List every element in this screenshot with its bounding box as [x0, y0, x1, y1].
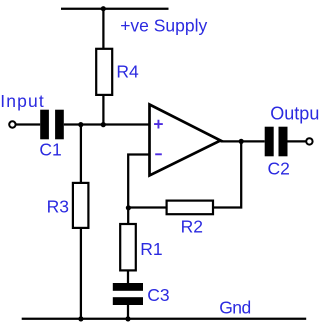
output terminal	[306, 138, 312, 144]
wire	[64, 123, 150, 125]
svg-text:C3: C3	[147, 285, 169, 305]
svg-text:Input: Input	[0, 91, 45, 111]
op-amp U1	[150, 105, 221, 176]
node A	[78, 122, 83, 127]
wire	[127, 270, 129, 283]
node F (C3 to ground)	[125, 316, 130, 321]
node D (output junction)	[239, 139, 244, 144]
svg-text:R2: R2	[181, 217, 203, 237]
pin label -	[155, 153, 162, 155]
wire	[213, 141, 241, 207]
resistor R2	[167, 201, 213, 215]
capacitor C3	[113, 283, 143, 305]
svg-text:R3: R3	[47, 197, 69, 217]
node E (R3 to ground)	[78, 316, 83, 321]
+ve supply rail wire	[61, 8, 169, 10]
resistor R4	[96, 49, 112, 95]
svg-text:R4: R4	[116, 62, 139, 82]
wire	[80, 228, 82, 319]
svg-text:C2: C2	[268, 159, 290, 179]
node: supply junction	[101, 6, 106, 11]
wire	[128, 206, 166, 208]
capacitor C1	[40, 110, 64, 140]
svg-text:Gnd: Gnd	[219, 297, 251, 317]
capacitor C2	[265, 127, 288, 157]
svg-text:R1: R1	[140, 239, 162, 259]
svg-text:+ve Supply: +ve Supply	[120, 15, 207, 35]
pin label +	[154, 120, 163, 129]
svg-text:Outpu: Outpu	[270, 104, 319, 124]
ground rail wire	[22, 318, 307, 320]
node C (feedback junction)	[126, 205, 131, 210]
wire	[127, 305, 129, 319]
wire	[80, 125, 82, 183]
wire	[102, 95, 104, 125]
wire (output)	[221, 140, 265, 142]
wire (inverting input)	[128, 155, 149, 208]
svg-text:C1: C1	[39, 140, 61, 160]
wire	[288, 140, 307, 142]
wire	[102, 9, 104, 49]
wire	[127, 208, 129, 224]
resistor R3	[73, 183, 89, 228]
resistor R1	[120, 224, 136, 270]
wire	[16, 123, 40, 125]
input terminal	[9, 121, 15, 127]
node B	[101, 122, 106, 127]
